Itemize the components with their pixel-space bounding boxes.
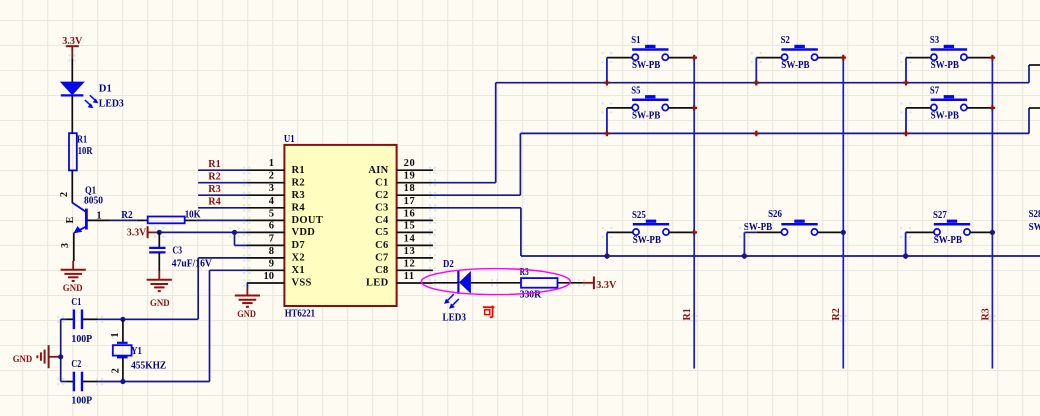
- junction S5 right on column R1: [691, 105, 697, 111]
- value 100P for C2: [71, 396, 92, 407]
- junction dot S26 leg on bus3: [742, 253, 747, 258]
- U1 pin 12 C8: [397, 267, 437, 274]
- pin number 2: [269, 171, 274, 182]
- svg-text:15: 15: [404, 220, 416, 231]
- wire Q1 emitter to ground: [73, 233, 75, 261]
- svg-text:GND: GND: [237, 310, 256, 320]
- switch S1 left pin: [607, 57, 632, 59]
- svg-text:9: 9: [269, 258, 274, 269]
- wire R1 to Q1 collector: [71, 170, 73, 203]
- svg-text:10R: 10R: [78, 146, 93, 157]
- pin number 2 of Y1 (rotated): [110, 368, 121, 373]
- junction dot GND-left: [58, 354, 63, 359]
- junction S7 right on column R3: [990, 105, 996, 111]
- ground symbol below C3: [147, 271, 172, 291]
- svg-text:8050: 8050: [84, 196, 103, 207]
- pin number 1: [269, 158, 274, 169]
- label LED3 for D1: [99, 98, 124, 109]
- resistor R3 body: [521, 278, 558, 288]
- svg-text:S27: S27: [933, 210, 947, 221]
- label SW-PB for S1: [632, 60, 661, 71]
- U1 pin 20 AIN: [397, 167, 437, 174]
- svg-text:19: 19: [404, 171, 416, 182]
- junction dot at 3.3V node: [154, 227, 164, 237]
- pin number 12: [404, 258, 416, 269]
- svg-text:2: 2: [59, 192, 70, 197]
- U1 pin 16 C4: [397, 217, 437, 224]
- switch S27 left pin: [906, 231, 934, 233]
- svg-text:7: 7: [269, 233, 274, 244]
- label U1: [284, 134, 295, 145]
- svg-text:20: 20: [404, 158, 416, 169]
- net label R3 (rotated): [980, 308, 996, 322]
- value 10R: [78, 146, 93, 157]
- switch S2 symbol: [781, 45, 817, 61]
- column wire net R1: [693, 58, 695, 369]
- svg-text:16: 16: [404, 208, 416, 219]
- svg-text:R3: R3: [292, 190, 305, 201]
- junction dot C1/Y1 node: [57, 316, 125, 323]
- wire D2 to R3: [471, 282, 521, 284]
- junction dot C2/Y1 node: [57, 378, 125, 385]
- junction S1 right on column R1: [691, 55, 697, 61]
- switch S27 right pin: [970, 231, 992, 233]
- switch S5 right pin: [668, 107, 694, 109]
- U1 pin 1 R1: [243, 167, 284, 174]
- svg-text:S28: S28: [1029, 209, 1040, 220]
- svg-text:SW-PB: SW-PB: [1029, 222, 1040, 233]
- svg-text:C2: C2: [71, 359, 81, 370]
- svg-text:12: 12: [404, 258, 416, 269]
- svg-text:330R: 330R: [520, 289, 542, 300]
- svg-text:D2: D2: [443, 259, 454, 270]
- svg-text:47uF/16V: 47uF/16V: [172, 258, 213, 269]
- value 100P for C1: [71, 334, 92, 345]
- label SW-PB for S3: [931, 60, 960, 71]
- svg-text:3: 3: [269, 183, 274, 194]
- switch S25 symbol: [633, 220, 669, 235]
- switch S5 left pin: [607, 107, 632, 109]
- label S5: [631, 85, 640, 96]
- svg-text:1: 1: [97, 210, 102, 221]
- svg-text:C2: C2: [375, 190, 388, 201]
- label C1: [71, 297, 81, 308]
- bus2 right riser to S8 pin: [1029, 108, 1040, 133]
- pin name C5: [375, 227, 388, 238]
- svg-text:R2: R2: [208, 172, 221, 183]
- pin name C1: [375, 177, 388, 188]
- pin number 6: [269, 220, 274, 231]
- switch S27 leg wire to bus: [905, 232, 907, 256]
- label Y1: [131, 346, 142, 357]
- svg-text:10K: 10K: [185, 209, 201, 220]
- wire R3 to 3.3V: [558, 282, 583, 284]
- pin number 1 of Q1: [97, 210, 102, 221]
- label Q1: [85, 185, 96, 196]
- svg-text:DOUT: DOUT: [292, 215, 324, 226]
- U1 pin 3 R3: [243, 192, 284, 199]
- label S7: [930, 85, 939, 96]
- svg-text:SW-PB: SW-PB: [632, 60, 661, 71]
- wire net R2 to U1 pin 2: [198, 182, 247, 184]
- junction S2 right on column R2: [841, 55, 847, 61]
- svg-text:100P: 100P: [71, 334, 92, 345]
- switch S2 right pin: [818, 57, 844, 59]
- svg-text:S7: S7: [930, 85, 939, 96]
- pin number 3: [269, 183, 274, 194]
- label SW-PB for S2: [781, 60, 810, 71]
- svg-text:R1: R1: [208, 159, 221, 170]
- svg-text:C8: C8: [375, 265, 388, 276]
- svg-text:R4: R4: [292, 202, 306, 213]
- net label R1 (rotated): [682, 308, 698, 322]
- svg-text:3.3V: 3.3V: [62, 36, 83, 47]
- pin number 10: [264, 271, 275, 282]
- svg-text:LED3: LED3: [99, 98, 124, 109]
- bus wire row1 net C1: [496, 82, 1029, 84]
- junction at S3 leg on bus: [903, 80, 909, 86]
- svg-text:S25: S25: [632, 210, 646, 221]
- Q1 base pin: [88, 219, 110, 221]
- wire U1 pin18 C2 to bus2 riser: [433, 133, 521, 195]
- switch S26 right pin: [818, 231, 844, 233]
- pin name X2: [292, 253, 305, 264]
- svg-text:GND: GND: [63, 284, 83, 294]
- svg-text:C1: C1: [71, 297, 81, 308]
- svg-text:E: E: [65, 216, 76, 223]
- switch S3 leg wire to bus: [905, 58, 907, 83]
- switch S7 symbol: [931, 95, 967, 111]
- pin number 3 of Q1 (rotated): [60, 243, 71, 248]
- U1 pin 5 DOUT: [243, 217, 284, 224]
- label R3: [520, 267, 529, 278]
- pin name R2: [292, 177, 305, 188]
- switch S7 left pin: [906, 107, 931, 109]
- svg-text:4: 4: [269, 196, 275, 207]
- ground symbol below VSS: [235, 288, 260, 307]
- label LED3 for D2: [443, 312, 467, 323]
- svg-text:3: 3: [60, 243, 71, 248]
- net label R2 (rotated): [831, 308, 847, 322]
- corner artifacts S3: [901, 52, 912, 63]
- svg-text:C3: C3: [173, 246, 183, 257]
- svg-text:10: 10: [264, 271, 275, 282]
- U1 pin 4 R4: [243, 204, 284, 211]
- svg-text:18: 18: [404, 183, 416, 194]
- pin name C7: [375, 253, 388, 264]
- label S3: [930, 35, 939, 46]
- U1 pin 15 C5: [397, 229, 437, 236]
- bus wire row3 net C3: [521, 255, 1040, 257]
- pin number 16: [404, 208, 416, 219]
- svg-text:S2: S2: [781, 35, 790, 46]
- svg-text:S3: S3: [930, 35, 939, 46]
- pin number 14: [404, 233, 416, 244]
- power port 3.3V (top left): [62, 36, 83, 58]
- wire U1 X1 to crystal node: [210, 270, 248, 381]
- switch S26 left pin: [744, 231, 781, 233]
- U1 pin 19 C1: [397, 179, 437, 186]
- wire C2 to Y1 bottom node: [98, 381, 123, 383]
- node artifacts at 3.3V wire joint: [68, 54, 75, 61]
- svg-text:R2: R2: [121, 210, 133, 221]
- annotation Chinese character KE (red): [483, 306, 495, 318]
- switch S3 right pin: [967, 57, 992, 59]
- svg-text:D1: D1: [99, 84, 112, 95]
- label SW-PB for S26: [744, 222, 773, 233]
- switch S1 leg wire to bus: [606, 58, 608, 83]
- switch S25 left pin: [607, 231, 633, 233]
- label S27: [933, 210, 947, 221]
- label SW-PB for S27: [934, 235, 963, 246]
- pin number 1 of Y1 (rotated): [110, 333, 121, 338]
- pin number 8: [269, 246, 274, 257]
- switch S25 right pin: [669, 231, 694, 233]
- svg-text:LED: LED: [366, 278, 389, 289]
- svg-text:GND: GND: [150, 299, 170, 309]
- junction dot S25 leg on bus3 (navy): [604, 253, 609, 258]
- label S26: [768, 209, 782, 220]
- pin name X1: [292, 265, 305, 276]
- wire left vertical C1-C2: [60, 319, 62, 381]
- U1 pin 18 C2: [397, 192, 437, 199]
- svg-text:SW-PB: SW-PB: [781, 60, 810, 71]
- junction dot S26 right on column R2: [841, 230, 846, 235]
- wire D1 cathode to R1: [71, 95, 73, 133]
- U1 pin 9 X1: [243, 267, 284, 274]
- svg-text:C5: C5: [375, 227, 388, 238]
- LED D1: [60, 82, 99, 109]
- label C2: [71, 359, 81, 370]
- svg-text:R1: R1: [682, 308, 693, 320]
- label R1: [77, 134, 87, 145]
- ground symbol below Q1: [61, 261, 86, 281]
- switch S2 leg wire to bus: [755, 58, 757, 83]
- junction at S5 leg on bus: [604, 131, 610, 137]
- svg-text:R2: R2: [292, 177, 305, 188]
- svg-text:X1: X1: [292, 265, 305, 276]
- svg-text:SW-PB: SW-PB: [931, 111, 960, 122]
- label HT6221: [285, 309, 315, 320]
- svg-text:13: 13: [404, 246, 416, 257]
- wire U1 X2 to crystal node: [198, 258, 247, 319]
- svg-text:SW-PB: SW-PB: [934, 235, 963, 246]
- svg-text:5: 5: [269, 208, 274, 219]
- wire U1 VSS to ground: [246, 283, 248, 288]
- pin name AIN: [368, 165, 388, 176]
- switch S26 symbol: [781, 220, 817, 235]
- resistor R2 pins: [137, 219, 197, 221]
- svg-text:AIN: AIN: [368, 165, 388, 176]
- pin number 4: [269, 196, 275, 207]
- label SW-PB for S5: [632, 111, 661, 122]
- label GND below VSS: [237, 310, 256, 320]
- wire 3.3V to D1 anode: [71, 58, 73, 82]
- U1 pin 8 X2: [243, 254, 284, 261]
- bus1 right riser to S4 pin: [1029, 65, 1040, 83]
- pin name C8: [375, 265, 388, 276]
- svg-text:R3: R3: [980, 308, 991, 320]
- pin number 20: [404, 158, 416, 169]
- power port 3.3V (middle): [127, 226, 159, 238]
- wire Q1 base to R2: [110, 219, 137, 221]
- pin number 19: [404, 171, 416, 182]
- svg-text:X2: X2: [292, 253, 305, 264]
- svg-text:1: 1: [269, 158, 274, 169]
- switch S1 symbol: [632, 45, 668, 61]
- svg-text:R1: R1: [292, 165, 305, 176]
- switch S25 leg wire to bus: [606, 232, 608, 256]
- junction dot S27 leg on bus3: [903, 253, 908, 258]
- svg-text:2: 2: [110, 368, 121, 373]
- resistor R2 body: [148, 217, 185, 224]
- svg-text:C1: C1: [375, 177, 388, 188]
- power port 3.3V (right of R3): [583, 276, 617, 291]
- wire net R4 to U1 pin 4: [198, 207, 247, 209]
- junction dot S27 right on column R3: [990, 230, 995, 235]
- svg-text:3.3V: 3.3V: [127, 227, 147, 238]
- crystal Y1: [113, 319, 132, 381]
- pin name C6: [375, 240, 388, 251]
- pin number 2 of Q1 (rotated): [59, 192, 70, 197]
- U1 pin 14 C6: [397, 242, 437, 249]
- junction at S27 leg on bus: [903, 253, 909, 259]
- svg-text:11: 11: [404, 271, 415, 282]
- junction at S7 leg on bus: [903, 131, 909, 137]
- LED D2: [444, 271, 471, 309]
- label GND below Q1: [63, 284, 83, 294]
- switch S7 right pin: [967, 107, 992, 109]
- op IC U1 HT6221 body: [284, 145, 396, 306]
- net label R2: [208, 172, 221, 183]
- net label R1: [208, 159, 221, 170]
- switch S27 symbol: [934, 220, 970, 235]
- svg-text:R2: R2: [831, 308, 842, 320]
- U1 pin 13 C7: [397, 254, 437, 261]
- pin number 11: [404, 271, 415, 282]
- wire net R3 to U1 pin 3: [198, 194, 247, 196]
- wire U1 pin17 C3 to bottom bus riser: [433, 208, 521, 256]
- corner artifacts S26: [739, 227, 750, 238]
- wire R2 to U1 pin5 DOUT: [197, 219, 248, 221]
- svg-text:HT6221: HT6221: [285, 309, 315, 320]
- capacitor C2: [61, 372, 98, 392]
- corner artifacts S1: [602, 52, 613, 63]
- value 330R: [520, 289, 542, 300]
- svg-text:GND: GND: [13, 355, 33, 365]
- U1 pin 17 C3: [397, 204, 437, 211]
- switch S5 leg wire to bus: [606, 108, 608, 133]
- pin name C2: [375, 190, 388, 201]
- svg-text:6: 6: [269, 220, 274, 231]
- corner artifacts S2: [751, 52, 762, 63]
- pin name R1: [292, 165, 305, 176]
- pin name R4: [292, 202, 306, 213]
- value 455KHZ: [131, 361, 166, 372]
- label SW-PB for S25: [633, 235, 662, 246]
- U1 pin 6 VDD: [243, 229, 284, 236]
- label C3: [173, 246, 183, 257]
- svg-text:SW-PB: SW-PB: [931, 60, 960, 71]
- svg-text:SW-PB: SW-PB: [632, 111, 661, 122]
- svg-text:R4: R4: [208, 197, 221, 208]
- switch S3 left pin: [906, 57, 931, 59]
- svg-text:S1: S1: [631, 35, 640, 46]
- svg-text:C7: C7: [375, 253, 388, 264]
- junction at S25 leg on bus: [604, 253, 610, 259]
- label S25: [632, 210, 646, 221]
- label D2: [443, 259, 454, 270]
- switch S5 symbol: [632, 95, 668, 111]
- net label R4: [208, 197, 221, 208]
- U1 pin 10 VSS: [243, 279, 284, 286]
- pin name LED: [366, 278, 389, 289]
- pin number 15: [404, 220, 416, 231]
- column wire net R2: [842, 58, 844, 369]
- switch S26 leg wire to bus: [743, 232, 745, 256]
- U1 pin 7 D7: [243, 242, 284, 249]
- svg-text:14: 14: [404, 233, 416, 244]
- pin number 5: [269, 208, 274, 219]
- capacitor C3 (polarized): [149, 232, 165, 271]
- svg-text:Y1: Y1: [131, 346, 142, 357]
- pin name C4: [375, 215, 389, 226]
- pin number 9: [269, 258, 274, 269]
- transistor Q1: [72, 203, 86, 234]
- svg-text:S5: S5: [631, 85, 640, 96]
- U1 pin 2 R2: [243, 179, 284, 186]
- pin number 18: [404, 183, 416, 194]
- label R2 designator: [121, 210, 133, 221]
- value 47uF/16V: [172, 258, 213, 269]
- pin name D7: [292, 240, 305, 251]
- label GND below C3: [150, 299, 170, 309]
- resistor R1 body: [69, 133, 77, 170]
- svg-text:C3: C3: [375, 202, 388, 213]
- junction at S1 leg on bus: [604, 80, 610, 86]
- svg-text:2: 2: [269, 171, 274, 182]
- wire net R1 to U1 pin 1: [198, 169, 247, 171]
- pin number 7: [269, 233, 274, 244]
- pin name VDD: [292, 227, 316, 238]
- junction at S2 leg on bus: [754, 80, 760, 86]
- svg-text:C6: C6: [375, 240, 388, 251]
- corner artifacts S5: [602, 103, 613, 114]
- value 8050: [84, 196, 103, 207]
- corner artifacts S7: [901, 103, 912, 114]
- svg-text:S26: S26: [768, 209, 782, 220]
- svg-text:SW-PB: SW-PB: [633, 235, 662, 246]
- node artifacts near D2 wire: [429, 279, 585, 286]
- svg-text:LED3: LED3: [443, 312, 467, 323]
- pin letter E of Q1 (rotated): [65, 216, 76, 223]
- label D1: [99, 84, 112, 95]
- pin name C3: [375, 202, 388, 213]
- svg-text:VSS: VSS: [292, 278, 312, 289]
- label SW-PB for S7: [931, 111, 960, 122]
- svg-text:1: 1: [110, 333, 121, 338]
- svg-text:C4: C4: [375, 215, 389, 226]
- wire VDD node down to U1 pin7 D7: [235, 232, 248, 245]
- label S1: [631, 35, 640, 46]
- switch S1 right pin: [668, 57, 694, 59]
- wire Y1 bottom node to X1 riser: [123, 381, 210, 383]
- svg-text:R1: R1: [77, 134, 87, 145]
- value 10K: [185, 209, 201, 220]
- power port GND (left, rotated): [13, 345, 61, 368]
- wire U1 pin11 LED to D2: [433, 282, 459, 284]
- svg-text:3.3V: 3.3V: [596, 280, 617, 291]
